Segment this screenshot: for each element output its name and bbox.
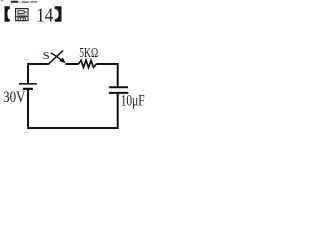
wire switch to resistor (66, 63, 79, 65)
resistor R (zigzag) (78, 60, 96, 67)
switch arrowhead (59, 58, 65, 64)
caption left bracket 【 (5, 6, 10, 21)
capacitor C bottom plate (109, 92, 128, 94)
svg-text:14: 14 (36, 4, 53, 26)
battery top plate (long, positive) (19, 83, 37, 85)
switch blade (49, 50, 64, 64)
capacitor C top plate (109, 86, 128, 88)
right vertical below capacitor, bottom wire, left vertical up to battery (28, 90, 118, 128)
cropped text fragments (top edge) (1, 0, 37, 3)
top wire (resistor to corner) and right vertical to capacitor (96, 64, 117, 86)
top wire (battery to switch) (28, 64, 50, 83)
caption right bracket 】 (55, 6, 62, 21)
svg-text:5KΩ: 5KΩ (79, 45, 98, 60)
svg-text:10μF: 10μF (121, 93, 145, 110)
svg-text:S: S (43, 51, 50, 62)
svg-text:30V: 30V (3, 89, 25, 106)
switch arrow lead (51, 53, 62, 60)
battery bottom plate (short, negative) (23, 88, 33, 90)
caption glyph 圖 (16, 9, 28, 21)
